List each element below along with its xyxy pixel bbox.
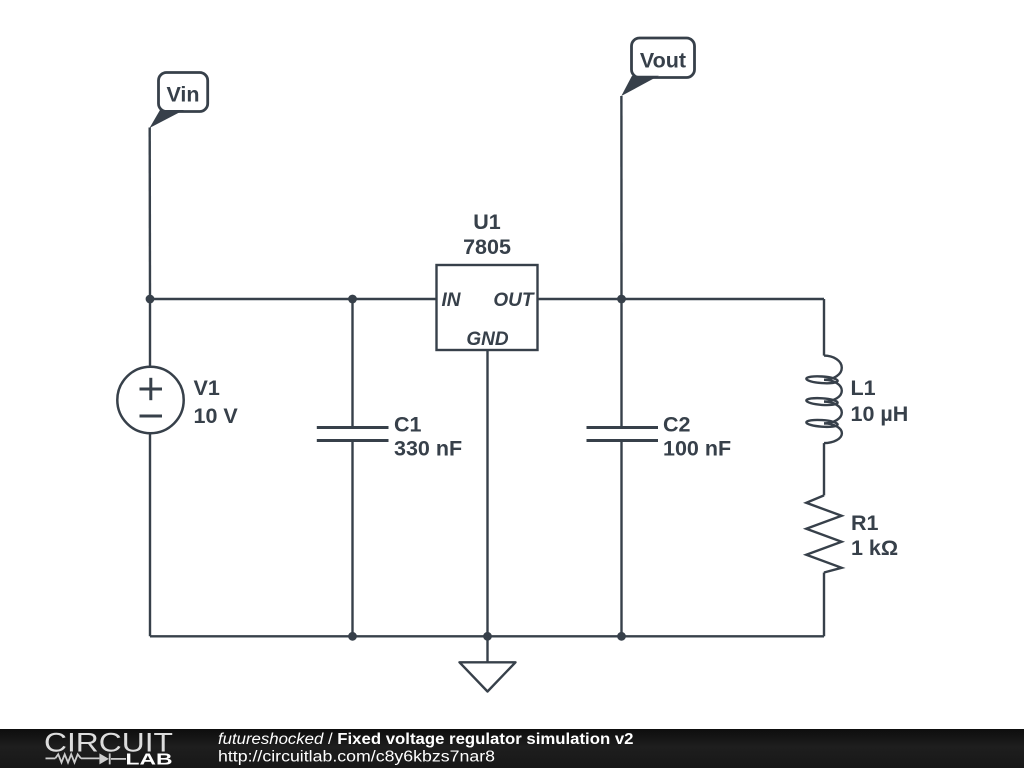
capacitor C1 [317, 428, 389, 441]
svg-text:U1: U1 [473, 210, 501, 234]
svg-text:L1: L1 [851, 376, 876, 400]
regulator U1 7805 [437, 210, 538, 350]
wire L1 to R1 [823, 443, 825, 495]
svg-text:GND: GND [466, 329, 509, 350]
inductor L1 [806, 356, 842, 444]
junction node dots [146, 295, 626, 641]
node flag Vin [150, 73, 208, 129]
ground [460, 662, 516, 691]
svg-text:10 V: 10 V [194, 404, 239, 428]
wire left rail upper (node to V1) [149, 299, 151, 367]
label L1 value [851, 376, 909, 426]
label R1 value [851, 511, 898, 560]
svg-text:http://circuitlab.com/c8y6kbzs: http://circuitlab.com/c8y6kbzs7nar8 [218, 749, 495, 766]
svg-text:C1: C1 [394, 413, 422, 437]
svg-text:futureshocked / Fixed voltage: futureshocked / Fixed voltage regulator … [218, 731, 634, 748]
wire C2 branch upper [620, 299, 622, 427]
label V1 value [194, 376, 239, 428]
wire U1 GND down [486, 350, 488, 662]
svg-text:330 nF: 330 nF [394, 437, 462, 461]
wire bottom rail [150, 635, 824, 637]
svg-text:7805: 7805 [463, 235, 511, 259]
capacitor C2 [587, 428, 659, 441]
voltage source V1 [117, 367, 183, 433]
svg-text:10 µH: 10 µH [851, 402, 909, 426]
svg-text:V1: V1 [194, 376, 220, 400]
svg-text:LAB: LAB [126, 752, 173, 768]
node flag Vout [621, 38, 694, 96]
wire top-left horizontal (Vin node to U1 IN) [150, 298, 437, 300]
wire R1 to bottom rail [823, 573, 825, 637]
wire C2 branch lower [620, 441, 622, 636]
svg-text:Vin: Vin [166, 83, 199, 107]
svg-text:C2: C2 [663, 413, 691, 437]
svg-text:1 kΩ: 1 kΩ [851, 536, 898, 560]
resistor R1 [806, 495, 841, 572]
wire Vout drop [620, 96, 622, 299]
footer bar [0, 729, 1024, 768]
wire U1 OUT to right rail [538, 298, 825, 300]
svg-text:IN: IN [442, 290, 462, 311]
svg-text:OUT: OUT [493, 290, 535, 311]
wire C1 branch upper [351, 299, 353, 427]
wire C1 branch lower [351, 441, 353, 636]
label C2 value [663, 413, 731, 461]
svg-text:Vout: Vout [640, 49, 686, 73]
wire right rail top (to L1) [823, 299, 825, 356]
label C1 value [394, 413, 462, 461]
wire left rail lower (V1 to bottom rail) [149, 434, 151, 637]
wire Vin drop [148, 128, 151, 300]
CircuitLab logo resistor-diode symbol [46, 753, 127, 764]
svg-text:R1: R1 [851, 511, 879, 535]
svg-text:100 nF: 100 nF [663, 437, 731, 461]
